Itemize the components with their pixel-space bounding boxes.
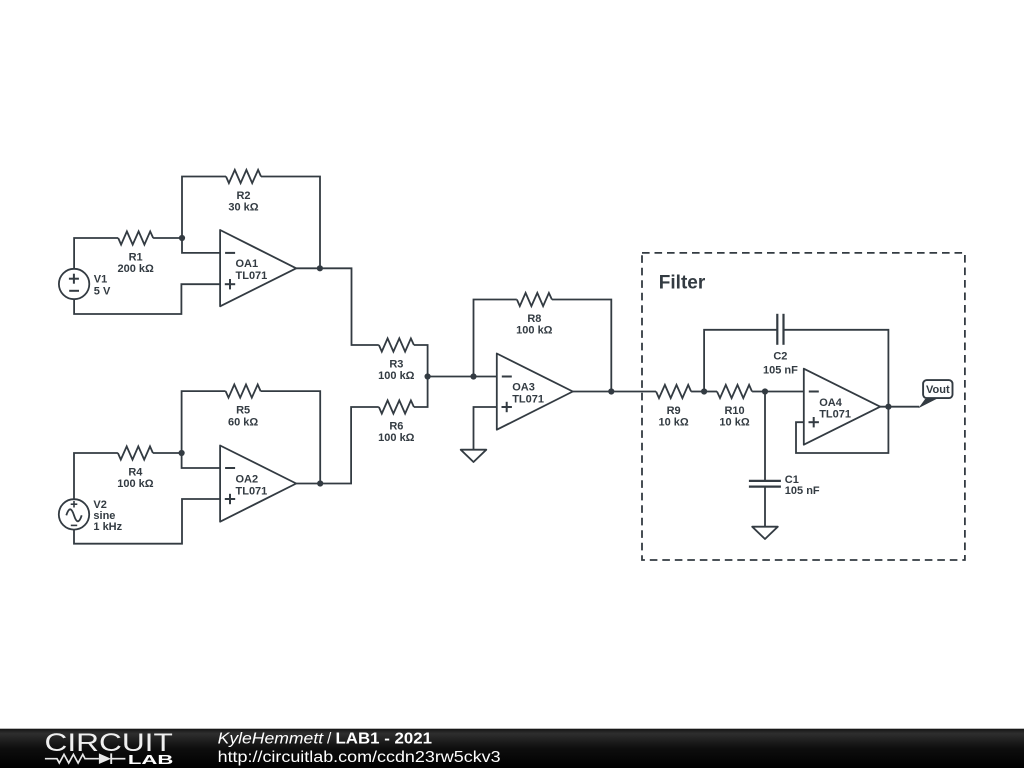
- wire V1- to OA1 non-inverting input: [74, 284, 220, 314]
- svg-text:105 nF: 105 nF: [763, 364, 798, 376]
- op-amp OA1: [220, 230, 296, 306]
- wire V2- to OA2 non-inverting input: [74, 499, 220, 544]
- op-amp OA3: [497, 354, 573, 430]
- svg-text:C2: C2: [773, 351, 787, 363]
- wire V1+ to R1: [74, 238, 118, 269]
- wire R1 to node: [153, 237, 182, 239]
- svg-text:105 nF: 105 nF: [785, 485, 820, 497]
- svg-text:OA4: OA4: [819, 397, 843, 409]
- resistor R10: [717, 385, 752, 398]
- wire R5 to OA2 output: [261, 391, 321, 483]
- svg-text:TL071: TL071: [236, 270, 268, 282]
- svg-text:R4: R4: [128, 466, 143, 478]
- op-amp OA2: [220, 446, 296, 522]
- svg-text:V1: V1: [94, 274, 107, 286]
- svg-text:60 kΩ: 60 kΩ: [228, 416, 258, 428]
- svg-text:100 kΩ: 100 kΩ: [117, 478, 154, 490]
- node OA1 output junction: [317, 265, 323, 271]
- wire R4 to node: [153, 452, 182, 454]
- resistor R1: [118, 231, 153, 244]
- svg-text:100 kΩ: 100 kΩ: [378, 432, 415, 444]
- OA1 plus pin mark: [225, 283, 235, 285]
- svg-text:OA3: OA3: [512, 382, 535, 394]
- OA2 plus pin mark: [225, 498, 235, 500]
- svg-text:Filter: Filter: [659, 273, 706, 294]
- wire node up to R2: [182, 177, 226, 239]
- node junction R4/R5/OA2-: [179, 450, 185, 456]
- ground at C1: [752, 527, 778, 539]
- OA4 minus pin mark: [809, 391, 819, 393]
- svg-text:R3: R3: [389, 358, 403, 370]
- voltage source V1: [59, 269, 89, 299]
- svg-text:OA2: OA2: [236, 474, 259, 486]
- op-amp OA4: [804, 369, 880, 445]
- OA3 minus pin mark: [502, 376, 512, 378]
- node OA4 output junction: [885, 404, 891, 410]
- svg-text:R1: R1: [129, 251, 143, 263]
- resistor R5: [226, 385, 261, 398]
- node OA2 output junction: [317, 480, 323, 486]
- node Vout flag: [923, 380, 952, 398]
- svg-text:R2: R2: [236, 190, 250, 202]
- svg-text:R6: R6: [389, 420, 403, 432]
- wire C1 to ground: [764, 487, 766, 527]
- wire C2 to OA4 output: [784, 330, 889, 407]
- wire node up to R8: [474, 300, 517, 377]
- resistor R6: [379, 400, 414, 413]
- wire node B to OA4 inverting input: [765, 391, 804, 393]
- voltage source V2 (sine): [59, 499, 89, 529]
- node A junction R9/R10/C2: [701, 388, 707, 394]
- svg-text:http://circuitlab.com/ccdn23rw: http://circuitlab.com/ccdn23rw5ckv3: [218, 749, 501, 766]
- wire OA3 output to R9: [573, 391, 656, 393]
- node summing junction R3/R6: [425, 373, 431, 379]
- OA3 plus pin mark: [502, 406, 512, 408]
- svg-text:TL071: TL071: [819, 409, 851, 421]
- node B junction R10/C1/OA4-: [762, 388, 768, 394]
- wire node to OA1 inverting input: [182, 238, 220, 253]
- svg-text:LAB: LAB: [128, 752, 173, 767]
- OA2 minus pin mark: [225, 467, 235, 469]
- svg-text:OA1: OA1: [236, 258, 259, 270]
- wire OA4 feedback to non-inverting input: [796, 407, 888, 453]
- wire R3 to summing node: [414, 345, 428, 377]
- svg-text:/: /: [327, 730, 332, 747]
- svg-text:100 kΩ: 100 kΩ: [378, 370, 415, 382]
- wire OA3 non-inverting input to ground: [474, 407, 497, 450]
- filter enclosure dashed box: [642, 253, 965, 560]
- svg-text:R8: R8: [527, 313, 541, 325]
- wire R10 to node B: [752, 391, 765, 393]
- svg-text:Vout: Vout: [926, 384, 950, 396]
- svg-text:1 kHz: 1 kHz: [93, 521, 122, 533]
- node junction R1/R2/OA1-: [179, 235, 185, 241]
- resistor R8: [517, 293, 552, 306]
- logo resistor-diode squiggle: [45, 754, 99, 763]
- ground at OA3: [461, 450, 487, 462]
- svg-text:5 V: 5 V: [94, 285, 111, 297]
- wire summing node to OA3 inverting input: [428, 376, 497, 378]
- wire node B down to C1: [764, 392, 766, 481]
- svg-text:10 kΩ: 10 kΩ: [719, 417, 749, 429]
- svg-text:200 kΩ: 200 kΩ: [117, 263, 154, 275]
- node R8 tap junction: [470, 373, 476, 379]
- resistor R4: [118, 446, 153, 459]
- svg-text:10 kΩ: 10 kΩ: [658, 417, 688, 429]
- wire OA4 output to Vout: [880, 406, 919, 408]
- node Vout flag pointer: [919, 399, 937, 408]
- svg-text:LAB1 - 2021: LAB1 - 2021: [336, 730, 433, 747]
- wire OA1 output to R3: [296, 268, 379, 345]
- footer bar: [0, 729, 1024, 768]
- wire node A to R10: [704, 391, 717, 393]
- resistor R9: [656, 385, 691, 398]
- svg-text:30 kΩ: 30 kΩ: [228, 202, 258, 214]
- resistor R3: [379, 338, 414, 351]
- wire OA2 output to R6: [296, 407, 379, 484]
- svg-text:R10: R10: [724, 405, 744, 417]
- svg-text:TL071: TL071: [236, 486, 268, 498]
- wire node up to R5: [182, 391, 226, 453]
- svg-text:R9: R9: [667, 405, 681, 417]
- wire V2+ to R4: [74, 453, 118, 499]
- wire R6 to summing node: [414, 377, 428, 408]
- svg-text:TL071: TL071: [512, 394, 544, 406]
- wire node A up to C2: [704, 330, 777, 392]
- resistor R2: [226, 170, 261, 183]
- wire node to OA2 inverting input: [182, 453, 221, 468]
- svg-text:100 kΩ: 100 kΩ: [516, 325, 553, 337]
- wire R2 to OA1 output: [261, 177, 320, 269]
- wire R9 to node A: [691, 391, 704, 393]
- wire R8 to OA3 output: [552, 300, 611, 392]
- OA1 minus pin mark: [225, 252, 235, 254]
- svg-text:R5: R5: [236, 405, 250, 417]
- node OA3 output junction: [608, 388, 614, 394]
- svg-text:KyleHemmett: KyleHemmett: [218, 730, 324, 747]
- OA4 plus pin mark: [809, 421, 819, 423]
